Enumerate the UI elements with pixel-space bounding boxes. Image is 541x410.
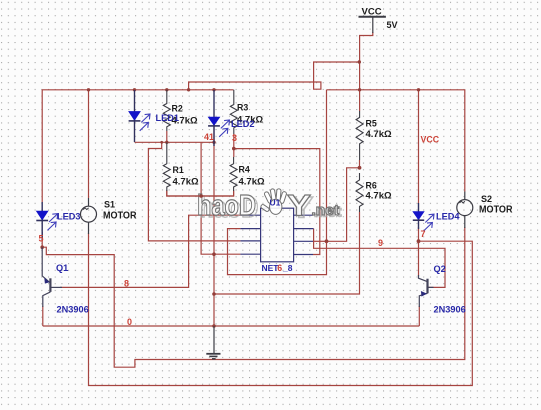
svg-text:LED1: LED1 <box>156 113 180 123</box>
svg-text:.net: .net <box>312 203 340 219</box>
svg-text:4.7kΩ: 4.7kΩ <box>173 177 199 188</box>
svg-text:5V: 5V <box>387 20 398 30</box>
svg-text:5: 5 <box>39 234 44 244</box>
svg-text:9: 9 <box>378 238 383 248</box>
svg-text:R1: R1 <box>173 165 184 175</box>
svg-text:4.7kΩ: 4.7kΩ <box>366 129 392 140</box>
svg-text:LED2: LED2 <box>231 119 255 129</box>
svg-text:0: 0 <box>127 317 132 327</box>
svg-text:MOTOR: MOTOR <box>479 204 513 215</box>
svg-text:4.7kΩ: 4.7kΩ <box>239 177 265 188</box>
svg-text:6: 6 <box>277 263 282 273</box>
svg-text:VCC: VCC <box>362 7 382 18</box>
svg-text:MOTOR: MOTOR <box>103 211 137 222</box>
svg-text:haoD: haoD <box>197 190 256 222</box>
svg-text:S2: S2 <box>481 194 492 204</box>
svg-text:R5: R5 <box>366 119 377 129</box>
svg-text:R3: R3 <box>237 103 248 113</box>
svg-text:VCC: VCC <box>421 135 440 145</box>
svg-text:Y: Y <box>287 190 311 223</box>
svg-text:S1: S1 <box>104 200 115 210</box>
svg-text:_8: _8 <box>282 263 293 273</box>
svg-text:41: 41 <box>204 132 214 142</box>
svg-text:8: 8 <box>124 279 129 289</box>
svg-text:7: 7 <box>421 229 426 239</box>
svg-text:U1: U1 <box>270 198 281 208</box>
svg-text:Q1: Q1 <box>56 263 68 273</box>
svg-text:3: 3 <box>232 133 237 143</box>
svg-text:R6: R6 <box>366 180 377 190</box>
svg-text:2N3906: 2N3906 <box>57 304 89 314</box>
svg-text:2N3906: 2N3906 <box>434 304 466 314</box>
svg-text:LED3: LED3 <box>57 212 81 222</box>
svg-text:LED4: LED4 <box>436 212 460 222</box>
svg-text:R4: R4 <box>239 165 250 175</box>
svg-text:4.7kΩ: 4.7kΩ <box>366 191 392 202</box>
svg-text:Q2: Q2 <box>434 264 446 274</box>
